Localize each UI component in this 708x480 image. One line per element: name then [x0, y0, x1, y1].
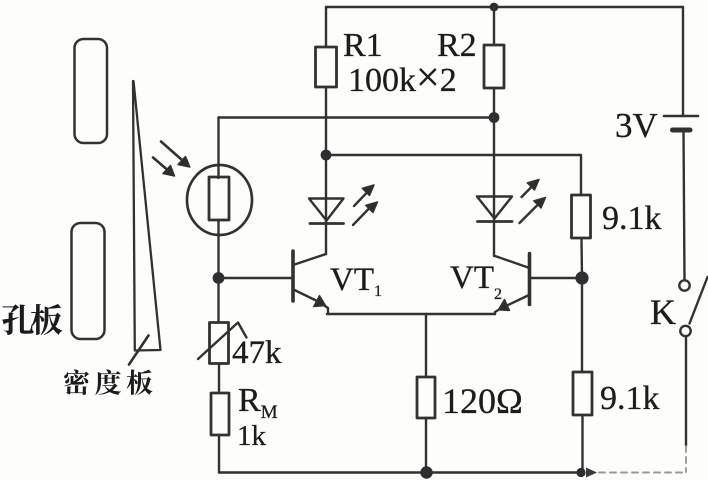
svg-text:3V: 3V: [615, 106, 658, 145]
switch K lower contact: [680, 326, 690, 336]
transistor VT2 emitter: [495, 295, 529, 314]
rheostat 47k arrow: [198, 323, 247, 360]
transistor VT1 base bar: [291, 251, 295, 301]
LED2 light arrow 1: [522, 180, 540, 198]
resistor RM: [211, 393, 229, 435]
wire R1 bottom / LED1 anode column: [325, 87, 327, 254]
wire bottom rail faint continuation: [588, 472, 686, 474]
wire VT1 base: [219, 277, 292, 279]
label miduban (density board): [64, 369, 152, 395]
perforated plate lower: [72, 223, 105, 339]
perforated plate upper: [75, 39, 108, 143]
wire switch to bottom rail: [685, 337, 687, 447]
junction R2 top on rail: [490, 3, 499, 12]
resistor 120ohm body: [417, 377, 435, 418]
svg-text:RM: RM: [238, 382, 278, 423]
svg-text:47k: 47k: [232, 335, 282, 371]
svg-text:100k×2: 100k×2: [348, 55, 457, 101]
junction bottom rail 9.1k: [576, 468, 597, 478]
photoresistor RG body: [209, 177, 229, 220]
svg-text:K: K: [650, 292, 676, 332]
wire node A horizontal to photoresistor: [219, 116, 495, 118]
wire R2 column top: [493, 7, 495, 45]
wire 9.1k lower bottom lead: [581, 415, 583, 473]
resistor 9.1k lower body: [573, 372, 592, 415]
LED2 VD2 triangle: [477, 197, 512, 219]
battery GB negative plate: [673, 128, 691, 133]
wire emitter bus: [327, 313, 495, 315]
junction VT2 base node: [575, 271, 588, 284]
rheostat 47k body: [210, 323, 229, 364]
wire VT2 base: [531, 277, 582, 279]
wire switch bottom faint: [685, 446, 687, 472]
wire battery to switch: [684, 130, 685, 280]
LED1 VD1 triangle: [309, 199, 344, 221]
pointer line to density board label: [129, 336, 149, 365]
wire bottom rail: [219, 471, 581, 473]
svg-text:R2: R2: [437, 27, 477, 64]
wire photoresistor bottom lead: [217, 220, 219, 278]
LED1 VD1 cathode bar: [310, 222, 344, 225]
svg-text:9.1k: 9.1k: [602, 200, 662, 237]
wire 120ohm bottom lead: [425, 418, 427, 473]
transistor VT1 emitter: [295, 290, 329, 314]
wire R1 column top: [325, 7, 327, 47]
resistor 9.1k upper body: [572, 195, 591, 238]
wire photoresistor top lead: [217, 118, 219, 179]
wire R2 bottom / LED2 anode column: [493, 88, 495, 256]
svg-text:R1: R1: [343, 27, 383, 64]
LED2 light arrow 2: [520, 198, 546, 224]
wire top rail: [326, 6, 683, 8]
junction bottom rail 120ohm: [420, 466, 432, 478]
svg-text:1k: 1k: [237, 420, 267, 452]
wire battery column from top rail: [682, 7, 684, 116]
svg-text:VT2: VT2: [450, 260, 502, 303]
transistor VT1 collector: [295, 254, 327, 265]
wire 9.1k lower top lead: [581, 278, 583, 372]
transistor VT2 base bar: [528, 254, 532, 305]
svg-text:120Ω: 120Ω: [442, 381, 523, 421]
wire RM bottom lead: [218, 435, 220, 473]
svg-text:VT1: VT1: [330, 262, 382, 300]
light arrow into photoresistor 1: [161, 142, 190, 168]
switch K blade: [690, 277, 708, 324]
LED2 VD2 cathode bar: [478, 220, 513, 223]
resistor R2: [484, 45, 504, 88]
resistor R1: [316, 47, 337, 87]
transistor VT2 collector: [495, 256, 528, 268]
light arrow into photoresistor 2: [153, 158, 175, 177]
photoresistor RG circle: [187, 165, 252, 235]
junction node B: [321, 150, 332, 161]
junction VT1 base node: [213, 272, 225, 284]
wire 120ohm top lead: [425, 314, 427, 377]
LED1 light arrow 1: [354, 185, 374, 206]
density wedge (density board): [133, 81, 161, 351]
wire 47k top lead: [217, 278, 219, 323]
battery GB positive plate: [664, 115, 698, 118]
junction node A: [489, 112, 500, 123]
wire 9.1k upper bottom lead: [580, 238, 583, 278]
switch K upper contact: [679, 280, 689, 290]
wire 47k to RM: [218, 364, 220, 394]
wire node B horizontal to 9.1k upper: [326, 155, 581, 195]
label kongban (perforated plate): [2, 304, 62, 335]
LED1 light arrow 2: [353, 202, 378, 225]
svg-text:9.1k: 9.1k: [600, 380, 660, 417]
